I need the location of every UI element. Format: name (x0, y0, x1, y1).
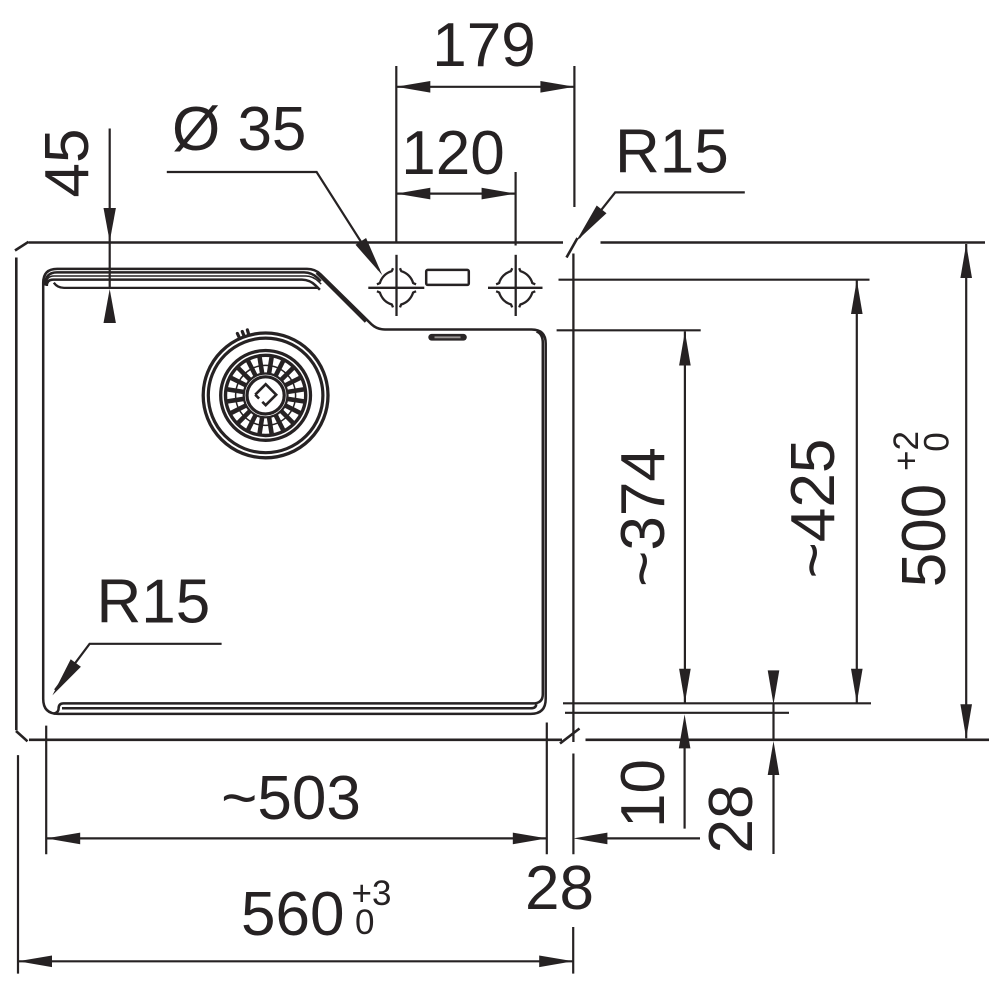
extension line ledge right (557, 329, 701, 331)
svg-text:120: 120 (401, 119, 504, 188)
dimension 45 (109, 129, 111, 290)
bowl opening right and bottom line (54, 332, 543, 714)
cutout right edge vertical (572, 254, 574, 743)
svg-text:28: 28 (697, 785, 766, 854)
faucet hole crosshair right (488, 255, 543, 316)
dimension ~503 (46, 723, 547, 855)
drain center diamond (255, 384, 276, 405)
dimension 179 (396, 66, 574, 244)
svg-text:R15: R15 (615, 118, 729, 187)
accessory rectangular hole (426, 270, 469, 285)
bowl opening top line (47, 280, 320, 290)
overflow slot (428, 334, 467, 341)
dimension 120 (396, 172, 515, 246)
svg-text:500: 500 (890, 484, 959, 587)
svg-text:560: 560 (241, 880, 344, 949)
dimension ~374 (684, 332, 686, 703)
svg-text:45: 45 (33, 129, 102, 198)
leader R15 top (579, 192, 745, 238)
svg-text:~374: ~374 (609, 447, 678, 587)
strainer rim rings (221, 351, 311, 441)
dimension 28 right (772, 704, 774, 854)
drain highlight ticks (237, 330, 248, 338)
sink outer flange outline (43, 269, 546, 714)
notch merged diagonal overlay (317, 273, 366, 322)
svg-text:179: 179 (432, 11, 535, 80)
leader diameter 35 (167, 172, 379, 270)
worktop bottom edge right segment (586, 738, 990, 741)
svg-text:0: 0 (918, 432, 957, 451)
worktop top edge left segment (29, 241, 564, 244)
leader R15 bottom (55, 644, 222, 690)
sink rolled edge line 2 top (45, 272, 321, 285)
sink rolled edge line 2 bottom (62, 704, 536, 708)
svg-text:~503: ~503 (221, 764, 361, 833)
extension line flange bottom right (565, 712, 789, 714)
svg-text:R15: R15 (97, 568, 211, 637)
extension line bowl rim right (559, 279, 870, 281)
dimension 28 bottom (607, 837, 700, 839)
faucet hole crosshair left (368, 255, 424, 316)
worktop top edge right segment (601, 241, 986, 244)
dimension ~425 (856, 280, 858, 703)
worktop top-left corner chamfer (15, 242, 29, 251)
svg-text:10: 10 (609, 759, 678, 828)
drain outer ring (203, 333, 328, 458)
svg-text:~425: ~425 (779, 439, 848, 579)
worktop bottom edge left segment (29, 738, 562, 741)
svg-text:0: 0 (355, 903, 374, 942)
drain inner rings (244, 374, 288, 418)
sink rolled edge line 3 top (thin) (46, 276, 321, 286)
worktop cutout corner break tick top right (567, 238, 578, 258)
drain assembly (203, 330, 328, 458)
strainer radial spokes (228, 357, 304, 433)
worktop left edge (15, 258, 18, 731)
bowl inner back wall line (54, 283, 319, 288)
dimension 560 (18, 755, 573, 974)
strainer mid ring (236, 365, 296, 425)
extension line bowl bottom right (563, 702, 871, 704)
svg-text:Ø 35: Ø 35 (172, 95, 306, 164)
worktop cutout corner break tick bottom right (560, 729, 580, 744)
dimension 10 (683, 748, 685, 829)
worktop bottom-left corner chamfer (16, 731, 28, 741)
dimension 500 (965, 244, 967, 738)
svg-text:28: 28 (525, 854, 594, 923)
